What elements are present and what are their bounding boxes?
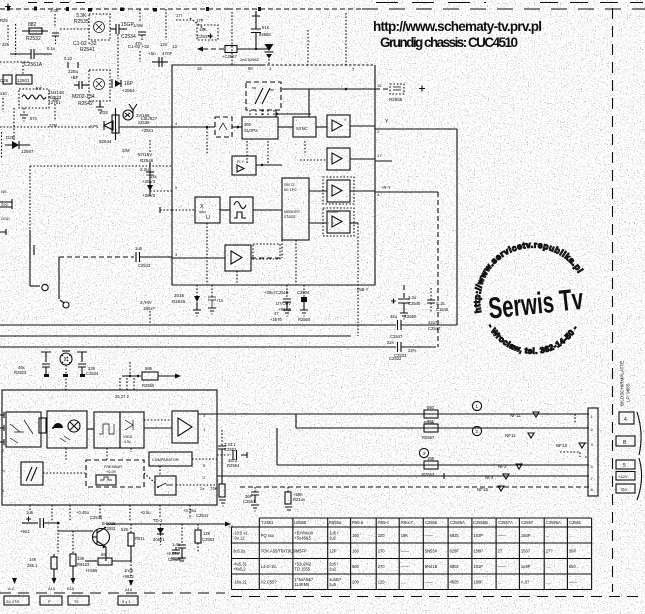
wire [13, 108, 15, 140]
ground [20, 115, 28, 121]
svg-text:——: —— [425, 533, 434, 538]
svg-text:8: 8 [591, 487, 594, 492]
svg-text:KP5: KP5 [90, 124, 99, 129]
svg-text:C2547: C2547 [390, 334, 403, 339]
capacitor C2561A [10, 49, 52, 68]
node NF4 [440, 473, 509, 480]
terminal box 4 [619, 412, 634, 424]
svg-text:Y: Y [344, 117, 347, 122]
wire [308, 89, 310, 117]
node NF11 [510, 412, 539, 418]
wire [401, 346, 436, 348]
wire R-Y output [375, 191, 438, 193]
capacitor C1545 [427, 288, 449, 312]
svg-text:+BF: +BF [70, 75, 79, 80]
pin box [40, 596, 62, 605]
svg-text:R91L: R91L [135, 536, 146, 541]
wire [0, 346, 396, 348]
svg-text:17P: 17P [196, 18, 204, 23]
svg-text:50: 50 [248, 66, 253, 71]
svg-text:FREKBUR: FREKBUR [104, 465, 122, 469]
svg-text:1u9P: 1u9P [521, 564, 531, 569]
svg-text:COMPARATOR: COMPARATOR [152, 458, 179, 462]
svg-text:C2551: C2551 [569, 520, 582, 525]
capacitor C2524 [77, 352, 99, 376]
svg-text:TOK A55/T6xT9L.9M5FP: TOK A55/T6xT9L.9M5FP [261, 549, 307, 554]
capacitor C2547A [196, 18, 218, 40]
wire [0, 126, 92, 128]
LED V2539 [123, 110, 133, 120]
amplifier A6 [172, 411, 198, 443]
svg-text:360: 360 [244, 122, 252, 127]
svg-text:+0.29: +0.29 [106, 470, 116, 474]
svg-text:A.0?: A.0? [521, 580, 530, 585]
wire [276, 428, 278, 465]
wire [231, 12, 233, 65]
svg-text:R9163: R9163 [77, 562, 90, 567]
svg-text:7: 7 [352, 67, 355, 72]
resistor R555 [86, 552, 131, 573]
wire [309, 222, 327, 224]
svg-text:-16u.21: -16u.21 [233, 580, 248, 585]
svg-text:C26: C26 [0, 78, 9, 83]
node circled 2 [472, 426, 481, 435]
svg-text:D2B: D2B [6, 135, 15, 140]
svg-text:70S: 70S [100, 110, 108, 115]
wire [196, 285, 198, 296]
svg-text:160: 160 [352, 549, 360, 554]
svg-text:R2546: R2546 [140, 158, 154, 163]
node arrow [225, 522, 231, 527]
wire [30, 285, 40, 287]
svg-text:29C: 29C [1, 202, 8, 207]
svg-text:C2553: C2553 [202, 537, 215, 542]
svg-text:C2547: C2547 [428, 326, 441, 331]
capacitor C2571 [20, 510, 60, 534]
wire [295, 414, 297, 428]
wire [251, 257, 282, 259]
wire [316, 126, 327, 128]
svg-text:3u5.2s: 3u5.2s [233, 549, 245, 554]
svg-text:225: 225 [2, 42, 10, 47]
pin stub [0, 425, 4, 431]
wire [176, 19, 192, 21]
svg-text:+0.5u: +0.5u [140, 510, 151, 515]
svg-text:x10: x10 [0, 91, 7, 96]
node NF13 [556, 443, 585, 457]
svg-text:52544: 52544 [99, 139, 112, 144]
bottom-left circuit [0, 508, 640, 605]
wire [0, 61, 30, 63]
svg-text:12K: 12K [203, 531, 211, 536]
svg-text:57n: 57n [30, 116, 38, 121]
svg-text:114KM5: 114KM5 [294, 582, 310, 587]
plus mark [5, 4, 11, 10]
svg-text:150P: 150P [473, 549, 483, 554]
svg-text:22n: 22n [387, 340, 395, 345]
wire [43, 472, 86, 474]
svg-text:120: 120 [378, 580, 386, 585]
svg-text:NF11: NF11 [505, 433, 516, 438]
wire [172, 209, 195, 211]
wire [139, 51, 141, 62]
stamp Serwis Tv [466, 234, 594, 362]
wire [139, 9, 141, 22]
terminal box Gn [616, 484, 635, 493]
capacitor C2552 [217, 442, 247, 460]
svg-text:——: —— [498, 564, 507, 569]
wire [130, 561, 132, 576]
svg-text:+1n: +1n [216, 298, 224, 303]
svg-text:5: 5 [203, 463, 206, 468]
svg-text:4605: 4605 [450, 580, 460, 585]
wire [160, 209, 172, 211]
svg-text:R2565: R2565 [389, 97, 403, 102]
R-Y matrix box [232, 156, 256, 175]
wire [350, 125, 375, 127]
svg-text:TD.1555: TD.1555 [294, 567, 310, 572]
svg-text:C2550: C2550 [404, 314, 417, 319]
wire [23, 108, 25, 115]
node arrow [129, 580, 134, 586]
wire [33, 245, 35, 255]
sync box [293, 117, 316, 137]
wire [206, 223, 208, 285]
capacitor C2564 [166, 524, 186, 562]
wire [281, 240, 283, 258]
wire [117, 34, 119, 79]
wire [0, 324, 396, 326]
pin box [68, 596, 89, 605]
multiplier box X/U [195, 197, 220, 223]
resistor R2567 [197, 46, 256, 60]
extra top-left clutter [0, 4, 449, 359]
brace [637, 412, 641, 455]
svg-text:R5567: R5567 [422, 435, 435, 440]
wire [149, 311, 151, 325]
resistor R2565 [375, 83, 425, 102]
svg-text:NF4: NF4 [485, 475, 494, 480]
wire [60, 300, 64, 303]
wire [286, 285, 288, 299]
capacitor C2533 [52, 33, 59, 44]
wire [58, 530, 93, 532]
svg-text:H-555: H-555 [86, 568, 98, 573]
svg-text:2.2u: 2.2u [140, 167, 149, 172]
svg-text:3o561: 3o561 [153, 537, 165, 542]
capacitor C2543a [68, 69, 89, 89]
resistor R9163 [67, 531, 90, 591]
capacitor C2546 [208, 297, 216, 308]
node circled 1 [472, 401, 481, 410]
svg-text:C2555: C2555 [425, 520, 438, 525]
svg-text:1n75: 1n75 [124, 568, 134, 573]
wire NF4 line4 [217, 475, 589, 477]
input box [215, 117, 232, 137]
svg-text:C2541: C2541 [196, 513, 209, 518]
svg-text:C2561A: C2561A [24, 62, 43, 68]
svg-text:...: ... [546, 533, 549, 538]
svg-text:x2539: x2539 [138, 120, 150, 125]
svg-text:C1-02 +32: C1-02 +32 [128, 44, 150, 49]
svg-text:A2.C55?: A2.C55? [261, 580, 278, 585]
svg-text:1u5: 1u5 [329, 582, 337, 587]
wire [232, 126, 242, 128]
wire Y output [375, 128, 457, 130]
wire [106, 448, 108, 460]
resistor R2544 [100, 108, 119, 140]
svg-text:+0.35u: +0.35u [183, 508, 197, 513]
wire [60, 28, 89, 30]
terminal box 12V [616, 472, 635, 481]
svg-text:——: —— [401, 564, 410, 569]
svg-text:Grundig chassis: CUC4510: Grundig chassis: CUC4510 [380, 35, 518, 50]
switch box S2 [155, 476, 176, 495]
svg-text:R-Y: R-Y [237, 159, 244, 164]
svg-text:9N41B: 9N41B [425, 564, 438, 569]
node circle [63, 302, 69, 308]
top-left cluster [0, 22, 92, 154]
svg-text:R55-a: R55-a [352, 520, 364, 525]
wire [276, 113, 311, 115]
top-middle cluster [60, 13, 172, 198]
svg-text:R2532: R2532 [26, 36, 41, 42]
svg-text:12: 12 [172, 44, 178, 49]
node NF2 [498, 464, 522, 469]
svg-text:C2516: C2516 [276, 290, 289, 295]
ground [208, 308, 216, 314]
svg-text:75: 75 [74, 599, 79, 604]
svg-text:S/M: S/M [122, 148, 130, 153]
wire [612, 8, 614, 592]
capacitor C2561 [243, 487, 259, 511]
wire [253, 244, 280, 259]
svg-text:...: ... [569, 533, 572, 538]
svg-text:NF11: NF11 [510, 413, 521, 418]
pin stub [0, 412, 4, 418]
svg-text:029F: 029F [450, 549, 460, 554]
wire [350, 190, 375, 192]
svg-text:25 27 2: 25 27 2 [115, 394, 130, 399]
wire [15, 24, 17, 52]
svg-text:52K: 52K [121, 527, 129, 532]
svg-text:160: 160 [352, 533, 360, 538]
svg-text:SW CL: SW CL [284, 183, 295, 187]
resistor C25x3 [195, 524, 215, 552]
svg-text:C2557: C2557 [521, 520, 534, 525]
terminal box B [616, 436, 635, 446]
svg-text:150?: 150? [521, 549, 531, 554]
resistor R21 [285, 487, 305, 510]
svg-text:V5ED: V5ED [123, 435, 133, 439]
svg-text:P: P [48, 599, 51, 604]
wire [278, 126, 293, 128]
svg-text:+25V3: +25V3 [142, 193, 156, 198]
svg-text:7: 7 [591, 476, 594, 481]
svg-text:12501: 12501 [17, 78, 30, 83]
svg-text:560: 560 [352, 564, 360, 569]
svg-text:NS: NS [1, 189, 7, 194]
svg-text:1: 1 [476, 404, 479, 409]
svg-text:C2556B: C2556B [473, 520, 488, 525]
resistor R2551 [27, 554, 57, 591]
freq divider box [86, 460, 144, 487]
wire [7, 25, 9, 40]
wire NF15 line5 [240, 486, 589, 488]
brace [637, 458, 642, 500]
pin stub [0, 439, 4, 445]
svg-text:2: 2 [203, 475, 206, 480]
wire [165, 9, 167, 40]
svg-text:15: 15 [377, 83, 382, 88]
svg-text:1xx: 1xx [150, 174, 157, 179]
amplifier A4 [323, 208, 354, 236]
svg-text:+NB-Y: +NB-Y [356, 287, 369, 292]
wire [119, 126, 172, 128]
wire [144, 419, 172, 421]
comparator box [149, 452, 192, 466]
svg-text:47nF: 47nF [162, 51, 173, 56]
tick marks [68, 62, 78, 68]
svg-text:1: 1 [269, 66, 272, 71]
node circle [42, 284, 48, 290]
svg-text:C2561: C2561 [243, 499, 256, 504]
below block1 pin cluster [172, 285, 421, 322]
wire [540, 2, 643, 4]
node mark [88, 8, 157, 12]
svg-text:56: 56 [101, 552, 106, 557]
capacitor C2538 [138, 32, 146, 40]
capacitor R55x [171, 542, 184, 561]
svg-text:R555a: R555a [329, 520, 342, 525]
wire [309, 190, 327, 192]
svg-text:R21us: R21us [293, 497, 305, 502]
svg-text:+9932: +9932 [122, 574, 134, 579]
svg-text:R2541: R2541 [80, 47, 95, 53]
svg-text:C2556A: C2556A [450, 520, 465, 525]
svg-text:1u5: 1u5 [135, 246, 143, 251]
node [345, 88, 348, 91]
wire [65, 448, 67, 460]
svg-text:C2534: C2534 [121, 34, 136, 40]
svg-text:585: 585 [145, 366, 153, 371]
svg-text:R2545: R2545 [172, 299, 186, 304]
wire [0, 8, 228, 10]
svg-text:6825: 6825 [450, 533, 460, 538]
svg-text:14K: 14K [29, 557, 37, 562]
svg-text:Serwis Tv: Serwis Tv [487, 283, 585, 326]
wire [211, 285, 213, 297]
memory stage box [282, 178, 309, 240]
svg-text:3:/HIV: 3:/HIV [140, 300, 152, 305]
svg-text:KE LFC: KE LFC [284, 188, 297, 192]
svg-text:C2524: C2524 [86, 371, 99, 376]
svg-text:3V/186: 3V/186 [136, 113, 150, 118]
svg-text:R2555: R2555 [142, 383, 155, 388]
terminal box 5 [616, 460, 635, 469]
small box [39, 418, 46, 433]
svg-text:18K: 18K [401, 533, 409, 538]
svg-text:2: 2 [476, 429, 479, 434]
svg-text:——: —— [425, 580, 434, 585]
svg-text:S.15: S.15 [436, 301, 445, 306]
svg-text:R2504: R2504 [298, 317, 311, 322]
svg-text:T.2551: T.2551 [261, 520, 274, 525]
capacitor C2534 [110, 22, 136, 40]
svg-text:701: 701 [427, 419, 435, 424]
svg-text:SLOPS: SLOPS [244, 128, 258, 133]
svg-text:...: ... [498, 580, 501, 585]
node NF11b [505, 433, 534, 438]
transistor T2542 [89, 70, 110, 101]
svg-text:1: 1 [203, 427, 206, 432]
pin stub [159, 207, 161, 213]
svg-text:12567: 12567 [21, 149, 34, 154]
svg-text:3: 3 [423, 451, 426, 456]
svg-text:225u: 225u [68, 69, 79, 74]
wire [275, 110, 277, 117]
svg-text:U2568: U2568 [294, 520, 307, 525]
resistor R5567 [422, 419, 438, 440]
svg-text:+4u5.2: +4u5.2 [233, 567, 246, 572]
svg-text:BILDSCHIRMPLATTE: BILDSCHIRMPLATTE [620, 361, 625, 406]
svg-text:182P: 182P [473, 533, 483, 538]
svg-text:5N534: 5N534 [425, 549, 438, 554]
resistor R2553 [422, 456, 438, 477]
svg-text:9: 9 [175, 185, 178, 190]
capacitor C2543 [135, 246, 151, 268]
svg-text:1k5: 1k5 [52, 97, 59, 102]
wire [144, 427, 172, 429]
coupler box [47, 411, 87, 448]
lamp [60, 351, 72, 390]
wire [149, 140, 151, 152]
svg-text:Gn: Gn [621, 487, 628, 492]
antenna Y [129, 104, 137, 117]
wire [0, 592, 225, 594]
wire [456, 129, 458, 325]
wire [119, 378, 121, 390]
svg-text:2: 2 [377, 129, 380, 134]
op-amp U2 lower IC block [2, 390, 217, 505]
above block2 cluster [14, 351, 181, 390]
diagonal dots [190, 18, 204, 29]
svg-text:+12V: +12V [618, 474, 628, 479]
wire [256, 164, 282, 166]
capacitor C2537 [0, 199, 12, 209]
svg-text:0.1u: 0.1u [47, 46, 56, 51]
svg-text:3: 3 [175, 252, 178, 257]
phase box [21, 462, 43, 485]
pin stub [0, 229, 6, 235]
svg-text:C2556A: C2556A [546, 520, 561, 525]
svg-text:——: —— [569, 580, 578, 585]
svg-text:27?: 27? [546, 549, 554, 554]
svg-text:M202-134: M202-134 [72, 94, 95, 100]
svg-text:+C2567: +C2567 [222, 54, 237, 59]
value table [232, 518, 592, 590]
svg-text:6802: 6802 [450, 564, 460, 569]
svg-text:Y: Y [385, 119, 389, 125]
wire [2, 98, 4, 112]
wire [307, 30, 309, 65]
svg-text:R55-c: R55-c [378, 520, 389, 525]
wire [303, 285, 305, 299]
wire [304, 141, 306, 155]
svg-text:MEMORY: MEMORY [284, 210, 301, 214]
wire [206, 128, 208, 155]
diode TD-2 [153, 518, 165, 545]
